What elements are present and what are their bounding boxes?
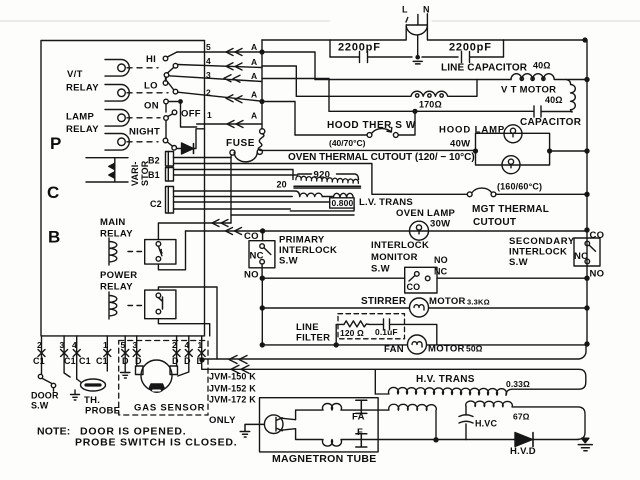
svg-text:1: 1 xyxy=(103,340,108,350)
wire B1 pin2 row / 920 row xyxy=(174,174,359,180)
arrows HV feed row xyxy=(229,356,247,364)
svg-text:NOTE:: NOTE: xyxy=(37,426,70,438)
wire line 4 xyxy=(178,65,263,68)
terminal C1 pin4 stub xyxy=(76,336,78,379)
svg-text:JVM-172 K: JVM-172 K xyxy=(209,395,256,405)
oven lamp row / CO row wire xyxy=(186,230,588,232)
svg-text:INTERLOCK: INTERLOCK xyxy=(279,245,337,256)
svg-text:A: A xyxy=(251,42,257,52)
junction hood lamp right xyxy=(548,149,552,153)
svg-text:MOTOR: MOTOR xyxy=(429,296,466,307)
VT capacitor xyxy=(329,106,572,117)
filter resistor 120ohm xyxy=(344,321,369,327)
line filter dashed box xyxy=(338,314,405,339)
junction filament bottom xyxy=(434,438,438,442)
ground right xyxy=(582,438,589,443)
switch NIGHT xyxy=(163,138,168,143)
svg-text:H.VC: H.VC xyxy=(475,419,497,429)
filter wire to cap xyxy=(369,323,384,325)
junction cap row / hood sw riser xyxy=(413,109,417,113)
wire C2 pin4 row xyxy=(174,208,291,210)
LV trans secondary winding 1 xyxy=(300,193,323,196)
wire fuse to transformer branch xyxy=(231,214,354,216)
fuse F1 xyxy=(260,129,265,134)
power relay bottom wire xyxy=(158,319,209,336)
svg-text:(160/60°C): (160/60°C) xyxy=(497,182,542,192)
svg-text:LINE: LINE xyxy=(296,322,319,333)
svg-text:B: B xyxy=(48,228,60,247)
svg-text:LAMP: LAMP xyxy=(66,112,94,123)
vertical from interlock NO to bus xyxy=(261,278,263,345)
svg-text:INTERLOCK: INTERLOCK xyxy=(509,247,567,258)
svg-text:1: 1 xyxy=(198,340,203,350)
junction rail stirrer xyxy=(585,306,589,310)
main relay linkage dash xyxy=(128,251,144,253)
svg-text:D: D xyxy=(122,356,129,366)
staircase line2 to hood switch xyxy=(262,102,295,136)
HVD diode xyxy=(515,433,533,447)
wire main relay top to fuse branch xyxy=(158,223,231,240)
svg-text:L.V. TRANS: L.V. TRANS xyxy=(359,197,413,208)
svg-text:5: 5 xyxy=(206,42,211,52)
svg-text:1: 1 xyxy=(207,110,212,120)
HVC capacitor xyxy=(459,406,473,439)
capacitor row risers xyxy=(330,40,504,57)
svg-text:MOTOR: MOTOR xyxy=(428,344,465,355)
main relay coil K3 xyxy=(109,238,117,265)
junction VT/rail xyxy=(585,78,589,82)
box 0.800 xyxy=(330,198,354,208)
svg-text:POWER: POWER xyxy=(100,270,137,281)
HV feed row wire xyxy=(202,344,586,359)
svg-text:50Ω: 50Ω xyxy=(466,344,483,354)
svg-text:FAN: FAN xyxy=(384,344,404,355)
svg-text:LO: LO xyxy=(144,81,158,92)
power relay coil K4 xyxy=(109,292,117,319)
svg-text:CO: CO xyxy=(244,231,259,242)
svg-text:L: L xyxy=(402,5,408,15)
svg-text:GAS SENSOR: GAS SENSOR xyxy=(134,403,205,414)
svg-text:DOOR: DOOR xyxy=(31,391,59,401)
svg-text:A: A xyxy=(251,111,257,121)
svg-text:3: 3 xyxy=(60,340,65,350)
svg-text:40W: 40W xyxy=(450,139,470,150)
staircase line3 to cap row xyxy=(262,79,329,112)
svg-text:PROBE: PROBE xyxy=(85,406,120,417)
junction terminal1 node xyxy=(200,358,204,362)
junction rail right top xyxy=(583,38,587,42)
power relay contact box xyxy=(145,290,176,319)
oven lamp LP3 xyxy=(410,221,429,240)
arrows line 4 xyxy=(226,63,242,70)
svg-text:RELAY: RELAY xyxy=(66,124,99,135)
junction rail hood lamp xyxy=(585,149,589,153)
svg-text:C1: C1 xyxy=(33,356,45,366)
svg-text:H.V. TRANS: H.V. TRANS xyxy=(416,374,475,385)
svg-text:120 Ω: 120 Ω xyxy=(340,328,364,338)
svg-text:C1: C1 xyxy=(64,356,76,366)
svg-text:C1: C1 xyxy=(79,356,91,366)
junction CO node xyxy=(261,229,265,233)
scan artifact top edge line xyxy=(0,20,640,22)
top rail wire xyxy=(262,25,585,40)
svg-text:NC: NC xyxy=(250,251,264,262)
fan row wire xyxy=(262,344,587,346)
svg-text:4: 4 xyxy=(185,340,190,350)
svg-text:CO: CO xyxy=(590,230,605,241)
svg-text:RELAY: RELAY xyxy=(66,83,99,94)
svg-text:D: D xyxy=(184,356,191,366)
svg-text:920: 920 xyxy=(314,170,331,181)
svg-text:20: 20 xyxy=(277,180,287,190)
svg-text:HOOD LAMP: HOOD LAMP xyxy=(439,125,505,136)
svg-text:FUSE: FUSE xyxy=(226,138,255,149)
svg-text:LINE CAPACITOR: LINE CAPACITOR xyxy=(441,63,528,74)
svg-text:SECONDARY: SECONDARY xyxy=(509,236,575,247)
arrow main relay row xyxy=(212,220,228,227)
inductor 170 ohm xyxy=(296,80,477,97)
HV trans primary winding xyxy=(375,387,506,395)
linkage dash lamp relay xyxy=(127,117,160,119)
svg-text:V/T: V/T xyxy=(67,69,83,80)
wire main relay bottom to CO row xyxy=(158,231,185,270)
filter input riser xyxy=(336,324,344,345)
magnetron box xyxy=(260,398,379,452)
fan motor M3 xyxy=(408,335,427,354)
gas sensor dashed box xyxy=(119,341,208,416)
svg-text:N: N xyxy=(423,5,430,15)
F feedthrough capacitor xyxy=(356,434,367,447)
arrows line 5 xyxy=(226,49,242,56)
svg-text:MONITOR: MONITOR xyxy=(371,252,418,263)
hood thermal switch S2 xyxy=(295,134,367,136)
connector B1 xyxy=(166,168,174,182)
terminal C1 pin2 stub xyxy=(41,336,43,374)
svg-text:H.V.D: H.V.D xyxy=(510,446,536,457)
LV trans primary winding 920 xyxy=(296,176,359,183)
svg-text:4: 4 xyxy=(72,340,77,350)
wire C2 pin2 row xyxy=(174,196,334,198)
svg-text:3: 3 xyxy=(206,70,211,80)
junction rail NO row xyxy=(585,276,589,280)
svg-text:S.W: S.W xyxy=(31,401,49,411)
svg-text:2200pF: 2200pF xyxy=(449,42,492,54)
LV trans bottom frame xyxy=(290,208,354,211)
VT motor feed wire xyxy=(315,79,511,81)
svg-text:NO: NO xyxy=(244,270,259,281)
arrows line 3 xyxy=(224,75,240,83)
svg-text:C2: C2 xyxy=(150,199,162,209)
junction rail fan xyxy=(585,342,589,346)
switch linked line4->line3 xyxy=(173,63,178,68)
pin5 ground xyxy=(121,373,130,379)
svg-text:OFF: OFF xyxy=(181,109,201,120)
svg-text:NO: NO xyxy=(590,269,605,280)
magnetron tube V1 xyxy=(264,415,283,434)
svg-text:A: A xyxy=(251,71,257,81)
svg-text:MAGNETRON TUBE: MAGNETRON TUBE xyxy=(272,453,377,465)
svg-text:CAPACITOR: CAPACITOR xyxy=(520,117,582,128)
NO row wire monitor to rail xyxy=(437,277,587,279)
junction rail MGT xyxy=(585,192,589,196)
connector B2 xyxy=(166,152,174,167)
ground at plug xyxy=(413,57,458,64)
HV choke 67ohm xyxy=(466,401,585,439)
svg-text:A: A xyxy=(251,90,257,100)
svg-text:RELAY: RELAY xyxy=(100,282,133,293)
svg-text:OVEN THERMAL CUTOUT (120/ − 10: OVEN THERMAL CUTOUT (120/ − 10°C) xyxy=(288,152,475,163)
svg-text:CO: CO xyxy=(407,282,421,292)
relay coil K1b (V/T relay lower) xyxy=(105,85,129,102)
wire B2 pin2 row to MGT xyxy=(174,164,386,195)
junction filter fan xyxy=(334,343,338,347)
svg-text:V T MOTOR: V T MOTOR xyxy=(501,85,556,96)
wire ON to OFF/night link xyxy=(166,102,197,139)
wire line 1 xyxy=(197,123,262,125)
svg-text:2200pF: 2200pF xyxy=(338,42,381,54)
svg-text:NO: NO xyxy=(434,255,448,265)
svg-text:S.W: S.W xyxy=(279,256,298,267)
junction rail CO row xyxy=(585,228,589,232)
magnetron filament F wire xyxy=(282,429,322,440)
wire line 5 xyxy=(177,51,262,53)
svg-text:D: D xyxy=(135,356,142,366)
svg-text:(40/70°C): (40/70°C) xyxy=(329,138,366,148)
secondary interlock switch S6 xyxy=(574,238,600,266)
main relay contact box xyxy=(145,240,176,265)
svg-text:RELAY: RELAY xyxy=(100,229,133,240)
terminal D pin5 stub xyxy=(124,336,126,372)
varistor RV1 xyxy=(86,158,128,182)
hood lamp upper xyxy=(504,125,522,143)
junction NO node xyxy=(260,276,264,280)
svg-text:INTERLOCK: INTERLOCK xyxy=(371,240,429,251)
relay coil K2b (night) xyxy=(105,134,129,151)
switch HI xyxy=(163,56,168,61)
FA loops xyxy=(323,403,379,410)
svg-text:3.3KΩ: 3.3KΩ xyxy=(467,298,490,307)
svg-text:C1: C1 xyxy=(96,356,108,366)
wire B2 pin1 row xyxy=(174,157,232,159)
terminal D pin1 stub xyxy=(201,336,203,369)
terminal C1 pin1 stub xyxy=(106,336,108,371)
wire B1 pin1 row xyxy=(174,170,294,180)
junction fuse/B2 row xyxy=(230,158,232,224)
rail right vertical xyxy=(586,40,588,344)
svg-text:0.800: 0.800 xyxy=(332,198,354,208)
relay coil K1a (V/T relay upper) xyxy=(105,60,129,77)
hood lamp parallel box xyxy=(476,133,588,165)
MGT thermal cutout S3 xyxy=(386,193,467,195)
svg-text:40Ω: 40Ω xyxy=(545,95,563,105)
terminal C1 pin3 stub xyxy=(63,336,65,373)
svg-text:ON: ON xyxy=(144,101,159,112)
junction line2/bus xyxy=(260,100,264,104)
arrows CO row xyxy=(226,228,242,235)
hood lamp lower xyxy=(502,156,520,174)
linkage dash night xyxy=(127,141,158,143)
wire C2 pin1 row xyxy=(174,191,300,197)
wire C2 pin3 row xyxy=(174,201,330,203)
svg-text:2: 2 xyxy=(37,340,42,350)
junction line5/bus xyxy=(260,50,264,54)
switch OFF xyxy=(164,116,169,121)
relay coil K2a (lamp relay) xyxy=(105,110,129,127)
staircase line5 to VT motor xyxy=(262,52,315,80)
svg-text:OVEN LAMP: OVEN LAMP xyxy=(396,208,456,219)
oven thermal cutout row wire xyxy=(261,149,476,151)
svg-text:5: 5 xyxy=(121,340,126,350)
arrows HV primary row xyxy=(231,365,249,373)
plug pins L N xyxy=(406,14,427,25)
svg-text:FILTER: FILTER xyxy=(296,333,330,344)
gas sensor GS1 xyxy=(141,360,172,391)
terminal D pin4 stub xyxy=(178,336,189,376)
svg-text:PRIMARY: PRIMARY xyxy=(279,235,325,246)
svg-text:NC: NC xyxy=(574,251,588,262)
terminal D pin3 stub xyxy=(136,336,138,366)
wire line 3 xyxy=(169,76,262,82)
HV primary row wire xyxy=(202,369,586,394)
svg-text:30W: 30W xyxy=(430,219,450,230)
svg-text:FA: FA xyxy=(352,412,365,423)
linkage dash V/T lower xyxy=(127,92,168,94)
svg-text:0.1uF: 0.1uF xyxy=(375,327,398,337)
svg-text:0.33Ω: 0.33Ω xyxy=(506,379,530,389)
svg-text:VARI-: VARI- xyxy=(130,161,140,186)
VT motor start winding vertical xyxy=(566,80,575,113)
svg-text:S.W: S.W xyxy=(509,257,528,268)
svg-text:F: F xyxy=(357,427,363,438)
terminal D pin2 stub xyxy=(176,336,178,366)
power relay linkage dash xyxy=(128,305,144,307)
filter output wire xyxy=(405,324,437,345)
svg-text:MGT THERMAL: MGT THERMAL xyxy=(472,204,549,215)
svg-text:JVM-152 K: JVM-152 K xyxy=(209,384,256,394)
svg-text:B1: B1 xyxy=(148,170,160,180)
junction bus stirrer xyxy=(260,306,264,310)
stirrer row wire xyxy=(262,307,587,309)
svg-text:C: C xyxy=(47,183,59,202)
svg-text:2: 2 xyxy=(172,340,177,350)
svg-text:170Ω: 170Ω xyxy=(419,100,442,110)
svg-text:67Ω: 67Ω xyxy=(513,412,530,422)
LV trans core xyxy=(294,186,361,188)
svg-text:ONLY: ONLY xyxy=(209,415,236,426)
svg-text:S.W: S.W xyxy=(371,264,390,275)
svg-text:CUTOUT: CUTOUT xyxy=(473,217,516,228)
diode CR1 night line xyxy=(177,129,205,149)
svg-text:STIRRER: STIRRER xyxy=(361,296,407,307)
power relay top wire to HV row xyxy=(158,287,217,359)
magnetron filament FA wire xyxy=(282,410,322,420)
svg-text:TH.: TH. xyxy=(84,395,100,406)
svg-text:B2: B2 xyxy=(148,156,160,166)
arrows line 2 xyxy=(226,95,242,103)
svg-text:D: D xyxy=(197,356,204,366)
primary interlock switch S4 xyxy=(262,231,264,241)
svg-text:P: P xyxy=(50,134,61,153)
control panel box xyxy=(41,41,205,336)
bottom HV row wire xyxy=(378,439,578,441)
junction hood lamp left xyxy=(474,149,478,153)
staircase line4 to 170ohm xyxy=(262,66,296,96)
capacitor C1 2200pF left xyxy=(330,52,412,63)
svg-text:NC: NC xyxy=(434,267,448,277)
probe ground mark xyxy=(71,390,80,400)
ground at magnetron xyxy=(240,424,264,437)
LV trans secondary winding 2 xyxy=(333,193,353,197)
capacitor C2 2200pF right xyxy=(462,52,504,63)
switch ON xyxy=(164,99,169,104)
svg-text:3: 3 xyxy=(133,340,138,350)
thermistor probe RT1 xyxy=(81,379,106,391)
switch LO xyxy=(163,81,168,86)
svg-text:NIGHT: NIGHT xyxy=(129,127,160,138)
svg-text:4: 4 xyxy=(206,56,211,66)
FA feedthrough capacitor xyxy=(356,400,367,413)
arrows line 1 xyxy=(227,121,243,128)
HV trans filament winding xyxy=(378,404,436,440)
svg-text:PROBE SWITCH IS CLOSED.: PROBE SWITCH IS CLOSED. xyxy=(75,437,238,449)
svg-text:MAIN: MAIN xyxy=(100,217,125,228)
filter capacitor 0.1uF xyxy=(384,319,405,330)
junction bus fan xyxy=(260,343,264,347)
linkage dash V/T upper xyxy=(127,67,158,69)
VT motor main winding xyxy=(511,74,587,80)
NO row wire to monitor switch xyxy=(262,277,404,279)
bus vertical upper xyxy=(261,40,263,129)
door switch S1 xyxy=(38,374,42,378)
interlock monitor switch S5 xyxy=(405,267,437,293)
svg-text:2: 2 xyxy=(206,88,211,98)
svg-text:HOOD THER S W: HOOD THER S W xyxy=(327,120,416,131)
svg-text:HI: HI xyxy=(146,54,156,65)
svg-text:D: D xyxy=(172,356,179,366)
svg-text:40Ω: 40Ω xyxy=(533,61,551,71)
F loops xyxy=(323,440,379,447)
svg-text:A: A xyxy=(251,57,257,67)
svg-text:JVM-150 K: JVM-150 K xyxy=(209,372,256,382)
connector C2 xyxy=(166,187,174,214)
plug body xyxy=(406,25,427,57)
stirrer motor M2 xyxy=(410,298,429,317)
